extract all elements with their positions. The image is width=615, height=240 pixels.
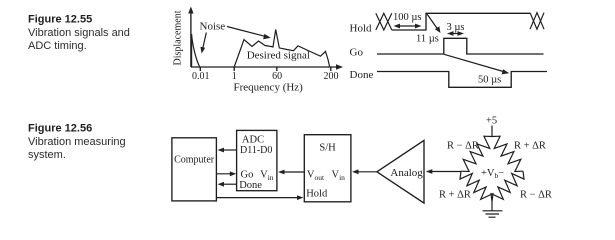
noise arrow to 60 Hz spike xyxy=(227,27,271,40)
tick 200 xyxy=(330,67,332,71)
Hold waveform xyxy=(392,13,530,30)
svg-text:ADC timing.: ADC timing. xyxy=(28,40,87,52)
block ADC xyxy=(237,130,277,191)
desired signal spectrum curve xyxy=(234,30,330,68)
wire Analog output to S/H Vin xyxy=(352,169,377,174)
svg-text:1: 1 xyxy=(232,71,237,82)
Done waveform xyxy=(377,72,547,88)
caption Figure 12.55 xyxy=(28,14,130,53)
svg-text:R − ΔR: R − ΔR xyxy=(520,189,552,200)
wire S/H Vout to ADC Vin xyxy=(278,170,304,175)
svg-text:Vin: Vin xyxy=(260,170,274,183)
svg-text:Noise: Noise xyxy=(200,21,226,33)
svg-text:200: 200 xyxy=(324,71,339,82)
svg-text:Vibration measuring: Vibration measuring xyxy=(28,136,126,148)
svg-text:Computer: Computer xyxy=(174,154,215,165)
spectrum x-axis (Frequency) xyxy=(191,64,343,93)
svg-text:Vin: Vin xyxy=(332,170,346,183)
tick 0.01 xyxy=(199,67,201,71)
svg-text:Analog: Analog xyxy=(390,167,423,179)
svg-text:Figure 12.56: Figure 12.56 xyxy=(28,123,92,135)
svg-text:Vibration signals and: Vibration signals and xyxy=(28,27,130,39)
bridge resistor R-dR (bottom-right) xyxy=(491,171,524,201)
svg-text:100 µs: 100 µs xyxy=(393,12,422,23)
svg-text:Vout: Vout xyxy=(307,170,325,183)
svg-text:R − ΔR: R − ΔR xyxy=(447,141,479,152)
svg-text:Frequency (Hz): Frequency (Hz) xyxy=(234,82,304,94)
50 us conversion arrow xyxy=(444,54,509,74)
3 us double arrow xyxy=(447,31,464,36)
noise arrow to low-frequency spike xyxy=(200,33,206,54)
bridge resistor R+dR (top-right) xyxy=(492,136,523,171)
svg-text:60: 60 xyxy=(272,71,282,82)
100 us double arrow xyxy=(394,24,422,29)
block Computer xyxy=(172,138,217,201)
data bus arrow ADC to Computer (D11-D0) xyxy=(218,148,237,153)
spectrum y-axis (Displacement) xyxy=(173,7,194,68)
svg-text:Hold: Hold xyxy=(306,188,328,199)
svg-text:Go: Go xyxy=(241,170,254,181)
svg-text:50 µs: 50 µs xyxy=(478,75,501,86)
svg-text:R + ΔR: R + ΔR xyxy=(439,189,471,200)
caption Figure 12.56 xyxy=(28,123,126,161)
ground xyxy=(483,202,503,218)
bridge resistor R-dR (top-left) xyxy=(461,136,492,171)
op-amp Analog xyxy=(377,140,424,203)
Go arrow Computer to ADC xyxy=(216,171,236,176)
svg-text:Figure 12.55: Figure 12.55 xyxy=(28,14,92,26)
tick 1 xyxy=(233,67,235,71)
bridge resistor R+dR (bottom-left) xyxy=(460,171,493,201)
wire bridge to Analog input xyxy=(426,169,461,174)
svg-text:Done: Done xyxy=(239,180,262,191)
block S/H xyxy=(304,135,351,202)
svg-text:R + ΔR: R + ΔR xyxy=(514,141,546,152)
svg-text:Desired signal: Desired signal xyxy=(247,49,310,61)
svg-text:Hold: Hold xyxy=(350,22,373,34)
svg-text:S/H: S/H xyxy=(319,143,336,154)
svg-text:Displacement: Displacement xyxy=(173,10,184,65)
svg-text:11 µs: 11 µs xyxy=(416,34,439,45)
Hold waveform left transition X xyxy=(376,13,392,30)
11 us pointer arrow xyxy=(427,14,441,33)
Done arrow ADC to Computer xyxy=(218,182,237,187)
Hold waveform right transition X xyxy=(530,13,544,30)
Go waveform xyxy=(377,38,544,54)
+5 supply xyxy=(486,116,497,137)
svg-text:+5: +5 xyxy=(486,116,497,127)
svg-text:+Vb−: +Vb− xyxy=(481,168,504,180)
svg-text:Done: Done xyxy=(350,69,374,81)
svg-text:D11-D0: D11-D0 xyxy=(240,145,272,156)
Hold wire Computer to S/H xyxy=(216,195,303,200)
noise spike (low frequency) xyxy=(192,34,200,67)
tick 60 xyxy=(276,67,278,71)
svg-text:Go: Go xyxy=(350,47,364,59)
svg-text:0.01: 0.01 xyxy=(192,71,210,82)
svg-text:3 µs: 3 µs xyxy=(447,22,465,33)
svg-text:system.: system. xyxy=(28,149,66,161)
